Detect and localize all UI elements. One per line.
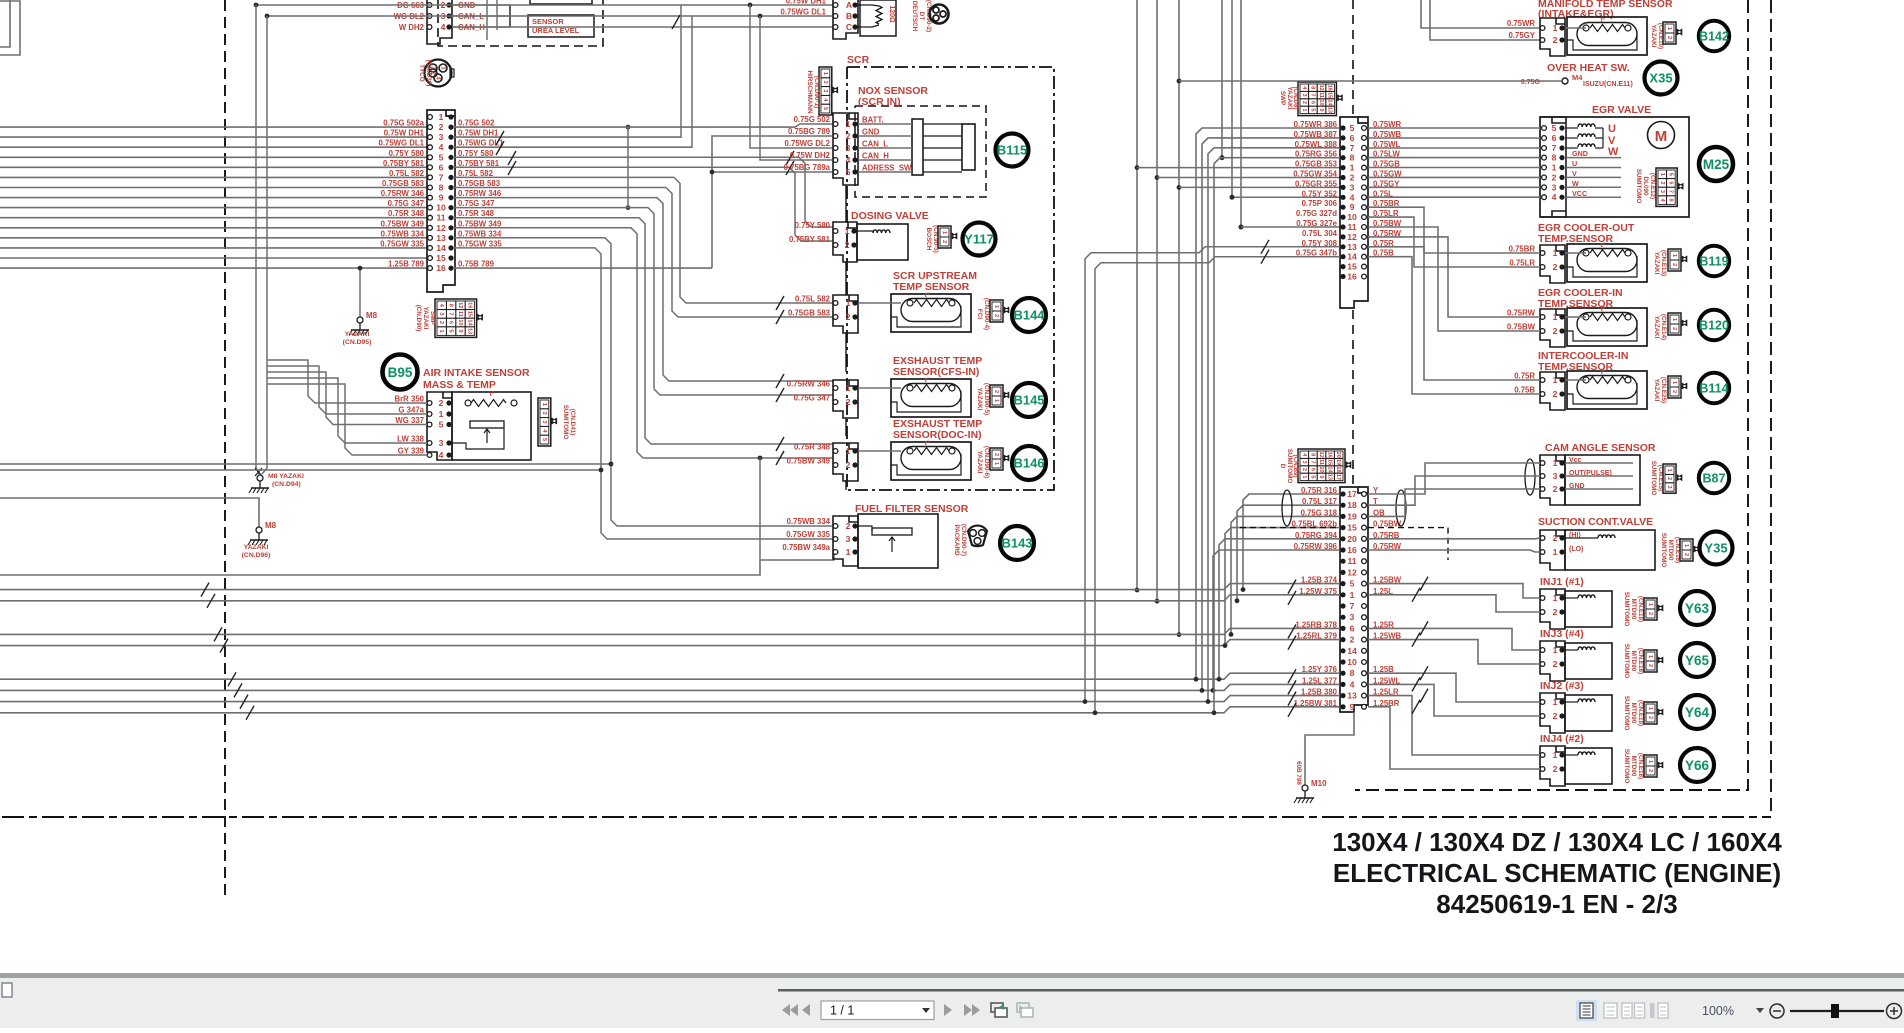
wire <box>1179 80 1561 82</box>
svg-text:2: 2 <box>1553 262 1558 272</box>
svg-text:2: 2 <box>993 390 999 393</box>
terminal circle B119 <box>1699 246 1729 276</box>
connector B119 <box>1540 245 1565 283</box>
wire <box>1430 0 1540 40</box>
svg-text:TYCO: TYCO <box>418 64 425 82</box>
svg-text:t°: t° <box>1601 16 1606 24</box>
svg-text:SUMITOMO: SUMITOMO <box>1660 533 1667 568</box>
svg-text:(CN.D90-7): (CN.D90-7) <box>960 524 967 556</box>
svg-text:2: 2 <box>541 412 547 415</box>
svg-text:1: 1 <box>846 298 851 308</box>
wire <box>1231 516 1340 634</box>
svg-text:0.75G 502: 0.75G 502 <box>794 115 831 124</box>
svg-text:0.75W DH1: 0.75W DH1 <box>786 0 827 6</box>
svg-text:3: 3 <box>1666 485 1672 488</box>
svg-text:DEUTSCH: DEUTSCH <box>911 1 918 32</box>
box SENSOR UREA LEVEL <box>528 15 594 37</box>
svg-text:U: U <box>1572 159 1577 168</box>
svg-text:t°: t° <box>1601 241 1606 249</box>
svg-text:(CN.E18): (CN.E18) <box>1637 700 1644 726</box>
svg-text:15: 15 <box>436 253 446 263</box>
wire <box>1179 186 1340 188</box>
svg-text:10: 10 <box>1347 657 1357 667</box>
svg-text:0.75Y 580: 0.75Y 580 <box>795 221 831 230</box>
svg-text:2: 2 <box>846 460 851 470</box>
svg-text:MTD90: MTD90 <box>1630 756 1637 777</box>
svg-text:2: 2 <box>1666 477 1672 480</box>
svg-text:CAM ANGLE SENSOR: CAM ANGLE SENSOR <box>1545 442 1656 454</box>
svg-text:0.75WB 334: 0.75WB 334 <box>458 229 502 238</box>
connector B144 <box>833 295 858 333</box>
svg-text:t°: t° <box>1601 368 1606 376</box>
wire <box>453 238 834 526</box>
wire <box>267 360 427 403</box>
svg-text:2: 2 <box>1553 484 1558 494</box>
svg-text:0.75L 304: 0.75L 304 <box>1302 229 1338 238</box>
svg-text:4: 4 <box>1552 192 1557 202</box>
svg-text:7: 7 <box>1350 143 1355 153</box>
svg-text:t°: t° <box>1601 305 1606 313</box>
svg-text:B120: B120 <box>1699 319 1729 333</box>
svg-text:SUMITOMO: SUMITOMO <box>562 405 569 440</box>
wire <box>256 5 259 474</box>
svg-text:SUMITOMO: SUMITOMO <box>1286 449 1293 484</box>
svg-text:MASS & TEMP: MASS & TEMP <box>423 379 496 391</box>
svg-text:C: C <box>846 22 852 32</box>
svg-text:14: 14 <box>1327 466 1333 473</box>
svg-text:YAZAKI: YAZAKI <box>1650 25 1657 48</box>
svg-text:U: U <box>1608 123 1616 135</box>
connector INJ3 (#4) <box>1540 641 1565 681</box>
svg-text:11: 11 <box>1347 222 1356 232</box>
svg-text:1: 1 <box>1553 750 1558 760</box>
terminal circle Y66 <box>1680 748 1714 782</box>
wire <box>0 126 427 128</box>
svg-text:13: 13 <box>1327 474 1333 480</box>
svg-text:MTD90: MTD90 <box>1630 599 1637 620</box>
svg-text:WG 337: WG 337 <box>395 416 424 425</box>
box dosing valve coil <box>857 224 908 260</box>
svg-text:DL090: DL090 <box>1642 177 1649 196</box>
svg-text:2: 2 <box>1671 263 1677 266</box>
svg-text:14: 14 <box>436 243 446 253</box>
svg-text:1: 1 <box>1553 547 1558 557</box>
svg-text:SENSOR(DOC-IN): SENSOR(DOC-IN) <box>893 429 982 441</box>
svg-text:2: 2 <box>439 122 444 132</box>
dashed page-boundary line bottom <box>2 816 1771 818</box>
window nav icons <box>991 1003 1003 1012</box>
wire <box>760 458 834 560</box>
wire <box>1565 252 1586 254</box>
svg-text:2: 2 <box>1553 764 1558 774</box>
svg-text:2: 2 <box>1683 553 1689 556</box>
svg-text:1: 1 <box>1647 603 1653 606</box>
svg-text:3: 3 <box>822 89 828 92</box>
svg-text:2: 2 <box>1553 659 1558 669</box>
wire <box>452 4 510 6</box>
svg-text:0.75P 306: 0.75P 306 <box>1302 199 1338 208</box>
svg-text:4: 4 <box>439 450 444 460</box>
wire <box>1368 463 1540 494</box>
wire <box>1240 0 1242 227</box>
svg-text:0.75GR 355: 0.75GR 355 <box>1295 179 1338 188</box>
svg-text:1: 1 <box>1671 254 1677 257</box>
svg-text:9: 9 <box>1318 108 1324 111</box>
svg-text:10: 10 <box>1347 212 1357 222</box>
svg-text:0.75W DH1: 0.75W DH1 <box>458 129 499 138</box>
svg-text:3: 3 <box>1659 190 1665 193</box>
svg-text:19: 19 <box>1335 459 1341 465</box>
svg-text:(CN.D96): (CN.D96) <box>242 552 271 559</box>
svg-text:11: 11 <box>436 213 445 223</box>
svg-text:0.75GB 353: 0.75GB 353 <box>1295 160 1338 169</box>
svg-text:0.75Y 580: 0.75Y 580 <box>389 149 425 158</box>
svg-text:10: 10 <box>457 319 463 325</box>
svg-text:2: 2 <box>993 453 999 456</box>
connector air intake 5-pin <box>427 392 452 460</box>
svg-text:SUCTION CONT.VALVE: SUCTION CONT.VALVE <box>1538 516 1653 528</box>
wire <box>1368 537 1540 540</box>
svg-text:1: 1 <box>1671 381 1677 384</box>
svg-text:1: 1 <box>1553 645 1558 655</box>
svg-text:18: 18 <box>1335 466 1341 472</box>
svg-text:(CN.D90): (CN.D90) <box>415 305 422 332</box>
svg-text:2: 2 <box>1659 181 1665 184</box>
wire <box>712 136 833 268</box>
svg-text:10: 10 <box>1318 99 1324 105</box>
svg-text:0.75WB 334: 0.75WB 334 <box>787 517 831 526</box>
wire <box>0 136 427 138</box>
svg-text:(CN.D94): (CN.D94) <box>272 481 301 488</box>
svg-text:8: 8 <box>439 183 444 193</box>
svg-text:3: 3 <box>846 143 851 153</box>
wire <box>1368 584 1540 598</box>
svg-text:YAZAKI: YAZAKI <box>345 331 370 338</box>
svg-text:W DH2: W DH2 <box>399 23 425 32</box>
svg-text:1: 1 <box>1666 469 1672 472</box>
svg-text:0.75G 347: 0.75G 347 <box>794 394 830 403</box>
svg-text:BrR 350: BrR 350 <box>395 395 425 404</box>
svg-text:5: 5 <box>439 420 444 430</box>
svg-text:0.75BY 581: 0.75BY 581 <box>458 159 500 168</box>
svg-text:2: 2 <box>993 314 999 317</box>
svg-text:5: 5 <box>1309 108 1315 111</box>
svg-text:W: W <box>1608 146 1619 158</box>
svg-text:0.75BW 349: 0.75BW 349 <box>458 219 502 228</box>
svg-text:6: 6 <box>1350 623 1355 633</box>
wire <box>1157 177 1340 179</box>
wire <box>453 267 712 269</box>
connector B145 <box>833 380 858 418</box>
svg-text:0.75G 502: 0.75G 502 <box>458 119 495 128</box>
svg-text:MTD90: MTD90 <box>1630 703 1637 724</box>
wire <box>452 26 834 28</box>
wire EGR feed 6 <box>1368 137 1540 139</box>
svg-text:8: 8 <box>1309 453 1315 456</box>
svg-text:BOSCH: BOSCH <box>925 228 932 251</box>
connector SUMITOMO CN.D41 <box>538 398 551 446</box>
page number box <box>821 1001 934 1020</box>
terminal circle B146 <box>1012 446 1046 480</box>
svg-text:0.75R 348: 0.75R 348 <box>388 209 425 218</box>
svg-text:AIR INTAKE SENSOR: AIR INTAKE SENSOR <box>423 367 530 379</box>
svg-text:8: 8 <box>1667 199 1673 202</box>
wire <box>0 247 427 249</box>
wire <box>858 450 901 452</box>
svg-text:1: 1 <box>822 72 828 75</box>
svg-text:6: 6 <box>1667 181 1673 184</box>
ground M8 <box>357 317 363 323</box>
svg-text:1: 1 <box>846 383 851 393</box>
connector CN.D90 16-pin (left) <box>427 110 455 292</box>
wire <box>267 378 427 443</box>
svg-text:18: 18 <box>1347 500 1357 510</box>
svg-text:SMP: SMP <box>429 311 436 325</box>
ground M8 YAZAKI CN.D94 <box>255 468 262 476</box>
svg-text:B144: B144 <box>1013 308 1045 323</box>
svg-text:ELECTRICAL SCHEMATIC (ENGINE): ELECTRICAL SCHEMATIC (ENGINE) <box>1333 858 1781 888</box>
svg-text:(CN.D8): (CN.D8) <box>1292 86 1299 109</box>
terminal circle B143 <box>1000 526 1034 560</box>
svg-text:6: 6 <box>1552 133 1557 143</box>
terminal circle Y117 <box>963 223 996 256</box>
svg-text:(CN.D41): (CN.D41) <box>569 409 576 436</box>
svg-text:5: 5 <box>822 107 828 110</box>
svg-text:0.75G 327d: 0.75G 327d <box>1296 209 1337 218</box>
svg-text:TEMP SENSOR: TEMP SENSOR <box>893 281 970 293</box>
svg-text:1: 1 <box>1553 593 1558 603</box>
svg-text:M25: M25 <box>1703 157 1730 172</box>
wire <box>0 176 427 178</box>
terminal circle B144 <box>1012 298 1046 332</box>
svg-text:1: 1 <box>1666 27 1672 30</box>
wire <box>0 267 427 269</box>
svg-text:1: 1 <box>1671 318 1677 321</box>
wire <box>0 187 427 189</box>
terminal circle B114 <box>1699 373 1729 403</box>
svg-text:0.75GW 354: 0.75GW 354 <box>1293 170 1337 179</box>
wire <box>453 124 833 127</box>
wire <box>486 0 488 40</box>
svg-text:G 347a: G 347a <box>398 406 424 415</box>
wire <box>0 257 427 259</box>
resistor 120ohm <box>858 5 879 6</box>
sensor element B145 <box>891 379 971 417</box>
svg-text:16: 16 <box>436 263 446 273</box>
svg-text:Y35: Y35 <box>1704 541 1727 556</box>
svg-text:4: 4 <box>846 155 851 165</box>
svg-text:(CN.E18): (CN.E18) <box>1637 648 1644 674</box>
connector INJ2 (#3) <box>1540 693 1565 733</box>
svg-text:14: 14 <box>466 319 472 326</box>
svg-text:X35: X35 <box>1649 71 1672 86</box>
wire <box>0 1 20 55</box>
wire <box>0 237 427 239</box>
svg-text:(CN.D90-5): (CN.D90-5) <box>983 383 990 415</box>
terminal circle B115 <box>996 134 1029 167</box>
wire <box>453 208 833 395</box>
svg-text:INJ1 (#1): INJ1 (#1) <box>1540 576 1584 588</box>
wire EGR feed 5 <box>1368 127 1540 129</box>
svg-text:1: 1 <box>439 112 444 122</box>
svg-text:1: 1 <box>1553 248 1558 258</box>
svg-text:16: 16 <box>1327 452 1333 458</box>
svg-text:B142: B142 <box>1699 30 1729 44</box>
svg-text:(CN.D90-4): (CN.D90-4) <box>983 298 990 330</box>
svg-text:1: 1 <box>993 462 999 465</box>
wire <box>1368 684 1540 716</box>
svg-text:16: 16 <box>466 302 472 308</box>
svg-text:GY 339: GY 339 <box>398 447 425 456</box>
wire EGR feed 8 <box>1368 157 1540 159</box>
svg-text:INJ4 (#2): INJ4 (#2) <box>1540 733 1584 745</box>
terminal circle X35 <box>1645 62 1678 95</box>
wire <box>0 146 427 148</box>
connector HIRSCHMANN CN.D90-1 <box>819 67 832 115</box>
svg-text:B95: B95 <box>388 365 413 380</box>
svg-text:0.75BW 349a: 0.75BW 349a <box>782 543 830 552</box>
svg-text:(CN.E18): (CN.E18) <box>1637 753 1644 779</box>
svg-text:1: 1 <box>1553 375 1558 385</box>
svg-text:11: 11 <box>1347 556 1356 566</box>
svg-text:16: 16 <box>1347 272 1357 282</box>
svg-text:2: 2 <box>941 240 947 243</box>
svg-text:ADRESS_SW: ADRESS_SW <box>862 164 912 173</box>
svg-text:3: 3 <box>1552 182 1557 192</box>
wire 692 drop <box>691 16 693 148</box>
svg-text:1: 1 <box>1659 173 1665 176</box>
svg-text:(CN.D90-6): (CN.D90-6) <box>983 446 990 478</box>
terminal circle Y63 <box>1680 591 1714 625</box>
ground M8 <box>256 527 262 533</box>
connector YAZAKI SMP (CN.D90) grid <box>435 299 477 337</box>
wire <box>1421 0 1540 28</box>
wire <box>1565 379 1586 381</box>
svg-text:2: 2 <box>846 397 851 407</box>
svg-text:17: 17 <box>1347 489 1357 499</box>
svg-text:0.75RW 346: 0.75RW 346 <box>787 380 831 389</box>
svg-text:2: 2 <box>846 521 851 531</box>
sensor element B144 <box>891 294 971 332</box>
svg-text:1: 1 <box>438 330 444 333</box>
svg-text:2: 2 <box>1671 327 1677 330</box>
dashed signal wire 0.75BL <box>1240 527 1340 529</box>
svg-text:4: 4 <box>1350 679 1355 689</box>
svg-text:2: 2 <box>1301 101 1307 104</box>
wire <box>262 16 267 474</box>
svg-text:ISUZU(CN.E11): ISUZU(CN.E11) <box>1583 81 1633 88</box>
svg-text:2: 2 <box>1553 389 1558 399</box>
svg-text:1: 1 <box>1301 108 1307 111</box>
scrollbar line <box>778 989 1904 992</box>
svg-text:YAZAKI: YAZAKI <box>1653 379 1660 402</box>
svg-text:YAZAKI: YAZAKI <box>422 307 429 330</box>
wire <box>0 707 1340 713</box>
svg-text:15: 15 <box>1327 459 1333 465</box>
svg-text:0.75R 348: 0.75R 348 <box>794 443 831 452</box>
wire EGR feed 7 <box>1368 147 1540 149</box>
svg-text:2: 2 <box>1647 612 1653 615</box>
wire <box>1136 0 1138 590</box>
svg-text:SUMITOMO: SUMITOMO <box>1650 461 1657 496</box>
wire <box>1221 0 1223 158</box>
connector dosing valve <box>833 222 857 262</box>
svg-text:(CN.B9): (CN.B9) <box>1292 454 1299 477</box>
terminal circle B145 <box>1012 383 1046 417</box>
svg-text:3: 3 <box>1301 94 1307 97</box>
svg-text:4: 4 <box>441 22 446 32</box>
wire <box>267 15 834 17</box>
svg-text:GND: GND <box>862 128 880 137</box>
svg-text:3: 3 <box>1553 471 1558 481</box>
svg-text:2: 2 <box>1350 635 1355 645</box>
wire <box>452 15 510 17</box>
svg-text:3: 3 <box>541 420 547 423</box>
ground M10 <box>1302 785 1308 791</box>
svg-text:B143: B143 <box>1001 536 1032 551</box>
svg-text:5: 5 <box>448 330 454 333</box>
connector CN.B9 20-pin (lower) <box>1340 487 1368 712</box>
box UREA QUALITY (cut) <box>530 0 592 4</box>
svg-text:0.75Y 580: 0.75Y 580 <box>458 149 494 158</box>
svg-text:2: 2 <box>1671 390 1677 393</box>
svg-text:0.75BY 581: 0.75BY 581 <box>789 235 831 244</box>
svg-text:5: 5 <box>1667 173 1673 176</box>
terminal circle Y64 <box>1680 695 1714 729</box>
svg-text:4: 4 <box>439 142 444 152</box>
svg-text:15: 15 <box>466 311 472 317</box>
svg-text:Y64: Y64 <box>1685 705 1710 720</box>
svg-text:13: 13 <box>1347 691 1357 701</box>
svg-text:SWP: SWP <box>1279 91 1286 105</box>
wire <box>1202 138 1340 691</box>
svg-text:B145: B145 <box>1013 393 1044 408</box>
wire <box>496 0 498 30</box>
wire <box>858 387 901 389</box>
connector packard triangle <box>968 526 987 547</box>
svg-text:3: 3 <box>439 132 444 142</box>
wire <box>1368 640 1540 664</box>
svg-text:B87: B87 <box>1703 472 1726 486</box>
terminal circle B87 <box>1699 463 1729 493</box>
connector fuel filter <box>833 516 858 566</box>
wire <box>0 166 427 168</box>
svg-text:M: M <box>1655 128 1668 145</box>
svg-text:1: 1 <box>846 547 851 557</box>
svg-text:15: 15 <box>1347 523 1357 533</box>
svg-text:A: A <box>846 0 852 10</box>
svg-text:3: 3 <box>1350 612 1355 622</box>
svg-text:2: 2 <box>1553 326 1558 336</box>
svg-text:1: 1 <box>1553 697 1558 707</box>
svg-text:6: 6 <box>1309 468 1315 471</box>
svg-text:YAZAKI: YAZAKI <box>1653 252 1660 275</box>
wire CAN_H feed <box>760 16 833 160</box>
svg-text:0.75RW 346: 0.75RW 346 <box>458 189 502 198</box>
svg-text:0.75G 347: 0.75G 347 <box>458 199 494 208</box>
svg-text:0.75BW 349: 0.75BW 349 <box>787 457 831 466</box>
svg-text:(CN.D95): (CN.D95) <box>343 339 372 346</box>
svg-text:13: 13 <box>1347 242 1357 252</box>
wire <box>1305 712 1354 786</box>
svg-text:8: 8 <box>448 304 454 307</box>
svg-text:0.75R 348: 0.75R 348 <box>458 209 495 218</box>
svg-text:1: 1 <box>993 399 999 402</box>
svg-text:0.75L 582: 0.75L 582 <box>389 169 425 178</box>
wire 681 drop <box>680 5 682 138</box>
toolbar nav arrows <box>782 1004 798 1016</box>
connector INJ1 (#1) <box>1540 589 1565 629</box>
